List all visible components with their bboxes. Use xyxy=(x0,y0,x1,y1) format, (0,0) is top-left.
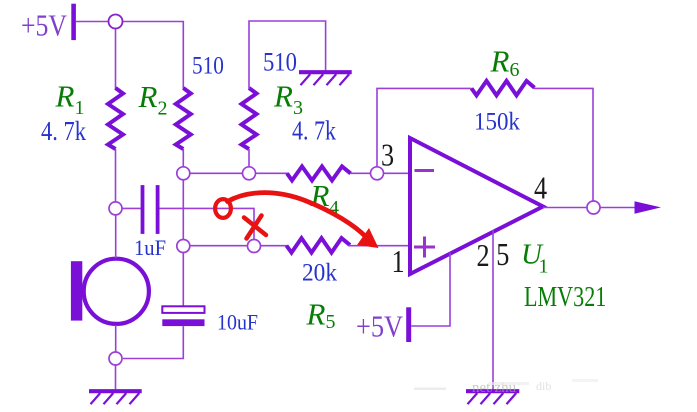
wire: op-amp output to node N9 xyxy=(543,207,587,209)
svg-text:+5V: +5V xyxy=(21,9,67,43)
node N3 (R3 bottom junction) xyxy=(243,167,256,180)
node N6 (bias junction) xyxy=(177,240,190,253)
wire: +5V bar to node N1 xyxy=(76,21,109,23)
wire: corner down to R2 top xyxy=(182,22,184,90)
svg-text:R: R xyxy=(55,79,75,114)
wire: node N4 to op-amp pin 3 xyxy=(384,172,411,174)
wire: C2 bottom plate down then left to node N8 xyxy=(123,326,183,358)
wire: node N7 to R5 left xyxy=(260,245,288,247)
svg-text:1uF: 1uF xyxy=(134,235,166,260)
svg-text:3: 3 xyxy=(381,138,394,173)
svg-text:150k: 150k xyxy=(474,107,521,135)
wire: node N5 to capacitor C1 left plate xyxy=(122,207,141,209)
svg-text:4. 7k: 4. 7k xyxy=(292,116,336,146)
node N5 (mic output junction) xyxy=(109,202,122,215)
op-amp U1 minus symbol xyxy=(415,169,435,172)
wire: mic top to node N5 xyxy=(115,215,117,258)
op-amp U1 plus symbol xyxy=(414,246,435,249)
resistor R6 (150k) zigzag xyxy=(472,81,535,96)
svg-text:6: 6 xyxy=(510,59,520,81)
wire: R1 bottom to node N5 xyxy=(115,149,117,202)
op-amp U1 triangle xyxy=(410,138,543,274)
svg-text:2: 2 xyxy=(477,239,490,274)
svg-text:5: 5 xyxy=(496,238,509,273)
wire: R3 bottom to node N3 xyxy=(248,149,250,167)
svg-text:1: 1 xyxy=(392,245,405,280)
ground G2 (mic) xyxy=(89,391,142,404)
svg-text:1: 1 xyxy=(75,97,85,119)
resistor R1 (4.7k) zigzag xyxy=(108,88,123,149)
red annotation curved arrow xyxy=(228,193,367,238)
wire: op-amp pin 5 down to ground G3 xyxy=(492,230,494,390)
svg-text:R: R xyxy=(490,44,510,79)
wire: node N1 down to R1 top xyxy=(115,29,117,90)
wire: R2 bottom to node N2 xyxy=(182,149,184,167)
wire: node N9 to output arrow xyxy=(601,207,637,209)
svg-text:10uF: 10uF xyxy=(217,310,258,335)
resistor R2 (510) zigzag xyxy=(176,88,191,149)
wire: feedback up from node N4 to R6 left xyxy=(377,88,472,166)
wire: node N8 down to ground G2 xyxy=(115,365,117,390)
svg-text:1: 1 xyxy=(539,256,549,278)
svg-text:2: 2 xyxy=(158,98,168,120)
wire: mic bottom to node N8 xyxy=(115,325,117,352)
svg-text:20k: 20k xyxy=(302,259,338,287)
wire: node N3 to R4 left xyxy=(255,172,288,174)
svg-text:510: 510 xyxy=(263,48,297,77)
svg-text:LMV321: LMV321 xyxy=(524,280,606,313)
node N7 (signal junction) xyxy=(248,240,261,253)
wire: node N6 to node N7 xyxy=(190,245,247,247)
wire: node N1 to top-right corner xyxy=(123,21,185,23)
red annotation loop xyxy=(215,199,231,218)
svg-text:+5V: +5V xyxy=(356,310,403,344)
node N1 (supply junction) xyxy=(109,15,123,29)
wire: R4 right to node N4 xyxy=(351,172,371,174)
capacitor C2 (10uF) top plate xyxy=(162,306,204,313)
red annotation X mark xyxy=(244,218,266,236)
svg-text:R: R xyxy=(306,297,326,332)
power +5V bar (bottom) xyxy=(406,307,411,342)
wire: C1 right plate right then down to node N7 xyxy=(160,208,255,239)
wire: node N6 down to C2 top plate xyxy=(182,253,184,307)
ground G1 (R3 top) xyxy=(299,72,352,85)
wire: node N2 to node N3 (inverting net) xyxy=(190,172,243,174)
svg-text:R: R xyxy=(273,79,293,114)
microphone MIC body xyxy=(84,259,149,324)
svg-text:4. 7k: 4. 7k xyxy=(41,117,86,147)
output arrow xyxy=(635,201,662,213)
capacitor C1 (1uF) plates xyxy=(141,185,145,234)
resistor R5 (20k) zigzag xyxy=(287,238,351,253)
svg-text:510: 510 xyxy=(192,52,224,80)
node N2 (R2 bottom junction) xyxy=(177,167,190,180)
capacitor C2 (10uF) bottom plate xyxy=(162,319,204,326)
svg-text:dib: dib xyxy=(536,379,551,393)
wire: node N2 down to node N6 xyxy=(182,180,184,240)
node N4 (inverting input junction) xyxy=(371,167,384,180)
resistor R3 (4.7k) zigzag xyxy=(242,88,257,149)
wire: R5 right to op-amp pin 1 xyxy=(349,245,411,247)
svg-text:5: 5 xyxy=(326,311,336,333)
wire: R3 top loop up and right to ground xyxy=(249,21,326,89)
node N8 (ground junction) xyxy=(109,352,122,365)
wire: R6 right down to output node N9 xyxy=(534,88,593,200)
red annotation arrowhead xyxy=(357,228,379,248)
wire: +5V bar to op-amp pin 2 xyxy=(411,253,450,327)
power +5V bar (top left) xyxy=(71,4,76,40)
svg-text:4: 4 xyxy=(534,171,547,206)
resistor R4 zigzag (to inverting input) xyxy=(287,166,351,180)
node N9 (output junction) xyxy=(587,201,600,214)
ground G3 (pin 5) xyxy=(466,391,519,404)
microphone MIC electret plate xyxy=(71,261,82,320)
svg-text:R: R xyxy=(138,79,158,114)
